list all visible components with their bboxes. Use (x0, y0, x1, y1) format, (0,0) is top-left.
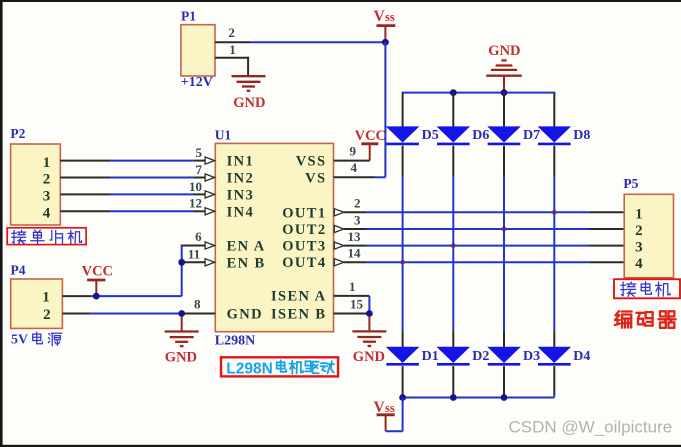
svg-text:D4: D4 (573, 349, 590, 364)
svg-text:15: 15 (350, 297, 364, 312)
wire col below D8 (553, 146, 555, 176)
diode D1 (386, 347, 419, 363)
label 接电机 (621, 282, 670, 297)
svg-text:2: 2 (228, 25, 235, 40)
wire col D3 lower pin (503, 330, 505, 347)
junction D7-OUT2 (502, 227, 507, 232)
wire EN B (182, 261, 206, 263)
svg-text:P4: P4 (11, 263, 26, 278)
wire col below D5 (402, 146, 404, 176)
junction botrail-D2 (450, 394, 457, 401)
op-amp U1 body (215, 143, 333, 331)
U1 OUT1 arrow (334, 209, 344, 216)
wire col below D6 (452, 146, 454, 176)
svg-text:D1: D1 (422, 349, 439, 364)
svg-text:D8: D8 (573, 128, 590, 143)
wire P2.4 to U1 IN4 (60, 210, 110, 212)
ground GND (P4) (181, 316, 183, 331)
svg-text:13: 13 (348, 229, 362, 244)
svg-text:1: 1 (635, 206, 643, 222)
svg-text:VCC: VCC (355, 128, 386, 144)
wire col D2 lower pin (452, 330, 454, 347)
svg-text:ss: ss (385, 401, 395, 415)
junction botrail-D1 (399, 394, 406, 401)
svg-text:D5: D5 (422, 128, 439, 143)
ground GND (ISEN) (368, 316, 370, 331)
wire col below D3 (503, 366, 505, 395)
svg-text:V: V (374, 8, 386, 25)
junction rail-D6 (450, 89, 457, 96)
wire ISEN A (334, 295, 370, 297)
svg-text:U1: U1 (215, 128, 232, 143)
wire U1 VS to Vss (334, 176, 376, 178)
svg-text:11: 11 (188, 246, 200, 261)
U1 OUT3 arrow (334, 242, 344, 249)
connector P5 (624, 194, 673, 277)
wire U1 VSS to VCC (334, 160, 370, 162)
svg-text:4: 4 (351, 160, 358, 175)
junction rail-GND (501, 89, 508, 96)
svg-text:8: 8 (194, 297, 201, 312)
svg-text:ISEN A: ISEN A (271, 288, 327, 304)
svg-text:OUT3: OUT3 (282, 239, 326, 255)
U1 pin 12 arrow (205, 208, 215, 215)
label L298N电机驱动 box (221, 357, 338, 376)
svg-text:4: 4 (635, 256, 643, 272)
svg-text:D7: D7 (523, 128, 540, 143)
wire col D1 lower pin (402, 330, 404, 347)
diode D3 (488, 347, 521, 363)
P1 pin 2 wire (215, 41, 251, 43)
wire P2.3 to U1 IN3 (60, 193, 110, 195)
svg-text:P1: P1 (181, 8, 196, 23)
wire OUT1 to P5.1 (344, 211, 366, 213)
svg-text:IN4: IN4 (227, 204, 255, 220)
svg-text:P2: P2 (10, 126, 25, 141)
svg-text:GND: GND (233, 95, 265, 111)
wire top rail (402, 92, 556, 94)
svg-text:2: 2 (635, 223, 643, 239)
wire bottom rail (403, 397, 555, 399)
frame bottom (0, 445, 681, 447)
svg-text:12: 12 (189, 196, 202, 211)
svg-text:V: V (374, 399, 386, 416)
connector P2 (11, 144, 61, 225)
P1 pin 1 wire (215, 57, 248, 59)
diode D5 (386, 127, 419, 143)
svg-text:IN2: IN2 (227, 171, 255, 187)
svg-text:CSDN @W_oilpicture: CSDN @W_oilpicture (509, 418, 673, 437)
U1 pin 11 arrow (205, 259, 215, 266)
junction D5-OUT4 (400, 260, 405, 265)
wire EN A (181, 245, 206, 247)
svg-text:P5: P5 (623, 176, 638, 191)
svg-text:9: 9 (350, 144, 357, 159)
wire OUT4 to P5.4 (344, 261, 366, 263)
U1 pin 10 arrow (205, 191, 215, 198)
connector P4 (11, 279, 63, 328)
wire OUT3 to P5.3 (344, 245, 366, 247)
svg-text:IN3: IN3 (227, 187, 255, 203)
svg-text:ss: ss (385, 10, 395, 24)
label 接单片机 box (7, 228, 86, 245)
wire P4.2 to U1 GND (62, 313, 90, 315)
svg-text:2: 2 (354, 196, 361, 211)
label 接单片机 (12, 230, 82, 244)
svg-text:VS: VS (305, 170, 326, 186)
svg-text:4: 4 (43, 206, 51, 222)
svg-text:GND: GND (165, 350, 197, 366)
wire VCC rail to EN (181, 245, 183, 297)
svg-text:OUT1: OUT1 (282, 205, 326, 221)
svg-text:3: 3 (635, 240, 643, 256)
power Vss top bar (377, 24, 396, 27)
svg-text:VCC: VCC (82, 264, 113, 280)
svg-text:2: 2 (43, 172, 51, 188)
junction EN B (178, 259, 185, 266)
svg-text:1: 1 (42, 290, 50, 306)
U1 OUT2 arrow (334, 225, 344, 232)
power VCC bar (361, 142, 378, 145)
svg-text:VSS: VSS (296, 154, 327, 170)
wire col below D1 (402, 366, 404, 395)
junction GND stem (178, 310, 185, 317)
svg-text:14: 14 (348, 246, 362, 261)
power Vss bottom bar (377, 413, 395, 416)
svg-text:GND: GND (227, 307, 263, 323)
U1 OUT4 arrow (334, 259, 344, 266)
wire col D4 lower pin (553, 330, 555, 347)
wire col below D2 (452, 366, 454, 395)
wire col D8 upper pin (553, 93, 555, 127)
ground GND (P1) (232, 75, 266, 77)
svg-text:6: 6 (195, 229, 202, 244)
wire P2.1 to U1 IN1 (60, 160, 110, 162)
junction botrail-D3 (501, 394, 508, 401)
svg-text:D2: D2 (472, 349, 489, 364)
svg-text:+12V: +12V (181, 75, 213, 90)
U1 pin 5 arrow (205, 157, 215, 164)
svg-text:L298N: L298N (226, 360, 273, 377)
power VCC mid bar (87, 279, 105, 282)
svg-text:GND: GND (488, 43, 520, 59)
wire P2.2 to U1 IN2 (60, 177, 110, 179)
svg-text:1: 1 (43, 155, 51, 171)
ground GND top (inverted) (486, 75, 522, 77)
wire OUT2 to P5.2 (344, 228, 366, 230)
wire Vss hook (386, 430, 403, 432)
label 接电机 box (614, 279, 680, 298)
diode D7 (488, 127, 521, 143)
junction ISEN (366, 310, 373, 317)
diode D4 (538, 347, 571, 363)
svg-text:5V: 5V (11, 333, 28, 348)
svg-text:2: 2 (43, 307, 51, 323)
svg-text:D3: D3 (523, 349, 540, 364)
svg-text:EN B: EN B (227, 255, 266, 271)
svg-text:ISEN B: ISEN B (271, 307, 327, 323)
frame left (0, 0, 3, 447)
wire col D5 upper pin (402, 93, 404, 127)
wire col below D4 (553, 366, 555, 395)
wire Vss to VS pin (384, 42, 386, 177)
wire col D6 upper pin (452, 93, 454, 127)
svg-text:3: 3 (354, 212, 361, 227)
svg-text:1: 1 (229, 42, 236, 57)
svg-text:IN1: IN1 (227, 154, 255, 170)
svg-text:10: 10 (189, 179, 202, 194)
U1 pin 6 arrow (205, 242, 215, 249)
svg-text:D6: D6 (472, 128, 489, 143)
label 编码器 (615, 311, 676, 328)
diode D8 (538, 127, 571, 143)
svg-text:OUT2: OUT2 (282, 222, 326, 238)
svg-text:L298N: L298N (215, 333, 255, 348)
junction VCC-P4.1 (93, 293, 100, 300)
wire ISEN B (334, 313, 370, 315)
wire col D7 upper pin (503, 93, 505, 127)
diode D2 (437, 347, 470, 363)
svg-text:3: 3 (43, 189, 51, 205)
svg-text:5: 5 (196, 145, 203, 160)
wire col below D7 (503, 146, 505, 176)
connector P1 (181, 25, 215, 76)
svg-text:7: 7 (196, 162, 203, 177)
U1 pin 7 arrow (205, 174, 215, 181)
svg-text:1: 1 (349, 279, 356, 294)
junction D6-OUT3 (451, 243, 456, 248)
wire P4.1 to EN riser (62, 295, 90, 297)
diode D6 (437, 127, 470, 143)
frame top (0, 0, 681, 2)
junction D8-OUT1 (552, 210, 557, 215)
svg-text:OUT4: OUT4 (282, 255, 326, 271)
junction at Vss/P1 wire (382, 39, 389, 46)
svg-text:EN A: EN A (227, 239, 266, 255)
svg-text:GND: GND (353, 349, 385, 365)
